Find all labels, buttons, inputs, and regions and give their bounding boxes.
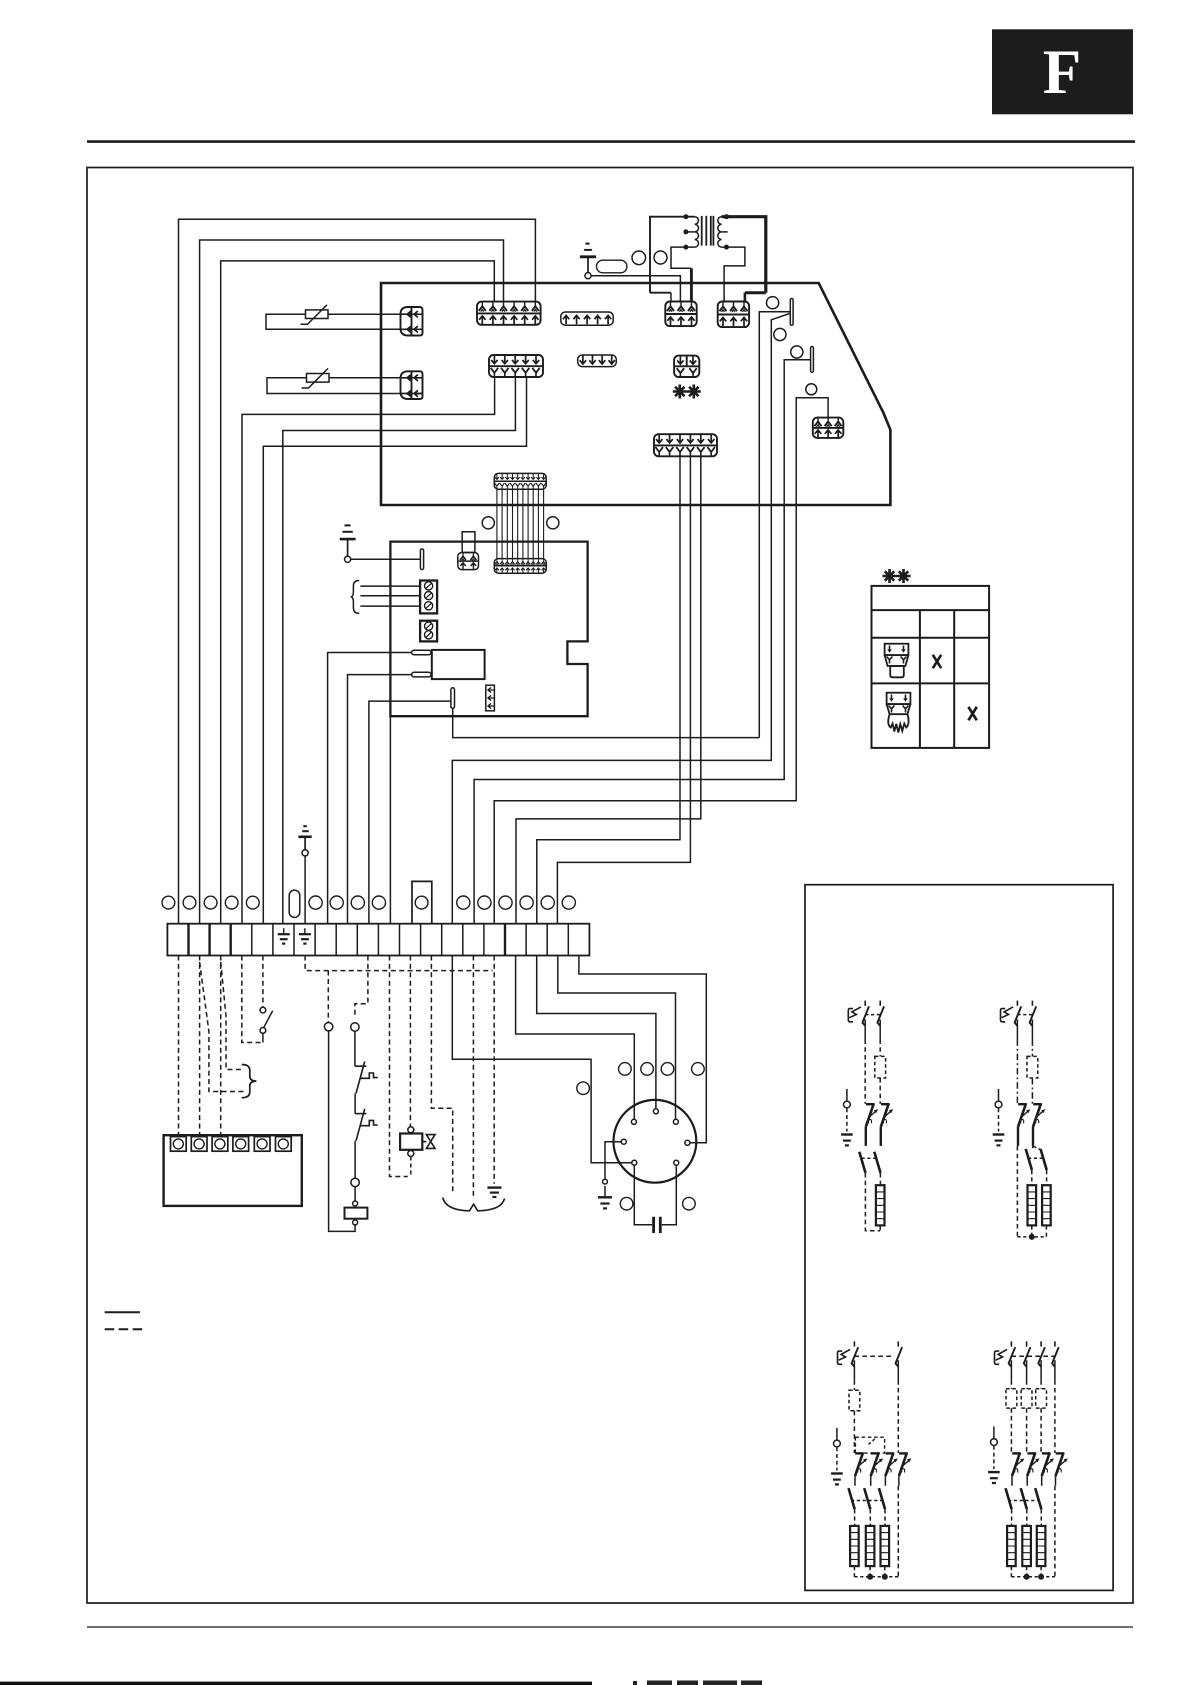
earth pigtail above terminal 7 [298, 826, 311, 924]
transformer terminal dots [683, 214, 729, 249]
page bottom crop bar [0, 1682, 592, 1685]
dashed branch to cable brace upper [200, 962, 244, 1092]
wire relay top pin to terminal 8 [328, 653, 412, 924]
connector X2 (5-way, down) [489, 355, 543, 377]
relay K1 bottom blade pin [412, 672, 431, 677]
D4 breaker pole 3 [1042, 1452, 1054, 1476]
D2 breaker outputs [1018, 1127, 1033, 1146]
D3 fuse ladder 3 [881, 1526, 890, 1566]
valve symbol [422, 1135, 435, 1149]
connector X13 (3-way left arrows) on display pcb [486, 685, 495, 711]
D1 accessory circle with earth [841, 1089, 853, 1146]
dashed wire terminal 15 to cable group [472, 956, 474, 1197]
dashed drop from bus to pump circuit [327, 971, 329, 1022]
wire ground G2 to pcb slot [351, 558, 421, 560]
D4 junction dot pole 3 [1038, 1574, 1044, 1580]
wire between cutouts [354, 1094, 356, 1114]
D4 accessory circle with earth [988, 1427, 1000, 1484]
connector X8 (6-way, down) [654, 434, 717, 456]
connector X1 (6-way) [477, 302, 541, 325]
top horizontal rule [87, 140, 1135, 143]
dashed wire terminal 5 to limit switch [262, 956, 264, 1007]
D2 pole N solid link [1032, 1146, 1034, 1148]
D2 pole L lower dashed [1016, 1146, 1018, 1237]
pump feed circle [324, 1022, 332, 1030]
pcb hole B [774, 328, 786, 340]
connector X6 (sensor plug 1) [401, 307, 423, 336]
D4 breaker outputs [1012, 1476, 1056, 1486]
D4 upper wires [1011, 1360, 1055, 1380]
motor pin lower-left [632, 1160, 637, 1165]
connector X12 (2-way) on display pcb [458, 553, 479, 570]
D3 fuse stub dashes [854, 1509, 885, 1577]
table X mark row 4 [968, 707, 976, 720]
D4 breaker pole 2 [1027, 1452, 1039, 1476]
D1 breaker outputs [866, 1127, 881, 1146]
D2 bottom coupling dashes [1017, 1236, 1046, 1238]
D2 branch dashes to second fuse column [1033, 1146, 1040, 1149]
legend solid line sample [105, 1311, 140, 1313]
D2 main switch lever [1001, 1007, 1014, 1022]
thermistor probe 1 leads [266, 314, 422, 329]
D3 main switch lever [838, 1349, 851, 1364]
wire X8 pin 4 to terminal 19 [557, 456, 690, 923]
connector header J2 (4-way, down) [578, 355, 617, 367]
wire primary bottom tap to connector X3 pin 3 [671, 247, 695, 268]
transformer T1 primary taps [686, 231, 695, 233]
D2 fuse ladder B [1042, 1185, 1051, 1225]
wire terminal 20 to motor right pin [579, 956, 706, 1143]
D3 blade coupling dashes [854, 1355, 894, 1357]
motor pin right [685, 1140, 690, 1145]
D4 fuse ladder 1 [1007, 1526, 1016, 1566]
relay K1 top blade pin [412, 650, 431, 655]
motor run capacitor C1 [654, 1217, 661, 1233]
D2 fuse ladder A [1028, 1185, 1037, 1225]
transformer T1 core [702, 216, 714, 246]
D1 isolator blade L [859, 1152, 865, 1173]
pcb slot pad lower (vertical) [451, 688, 455, 709]
motor pin top [653, 1109, 658, 1114]
limit switch S1 [260, 1007, 273, 1042]
D2 breaker pole N [1033, 1103, 1045, 1127]
wire slot pad to terminal 10 [369, 701, 451, 924]
D1 main switch lever [848, 1007, 861, 1022]
ribbon cable wires [497, 489, 544, 558]
dashed wire terminal 1 to room stat block [178, 956, 180, 1137]
dashed wire terminal 3 to room stat block [220, 956, 222, 1137]
D3 breaker pole 3 [885, 1452, 897, 1476]
terminal tower at cell 12 [412, 881, 432, 923]
double asterisk mark above table [883, 569, 897, 583]
connector X11 ribbon header (10-way) on display pcb [494, 559, 546, 574]
pump circuit wire down and across [329, 1031, 356, 1232]
motor left pin earth wire [605, 1142, 621, 1179]
wire display pcb corner to terminal 11 [389, 716, 391, 924]
gas valve solenoid Y1 bottom circle [408, 1151, 414, 1157]
D4 optional fuse box pole 2 [1021, 1389, 1032, 1408]
wire from terminal 4 to connector X2 pin 1 [242, 377, 495, 924]
thermistor probe 2 leads [267, 378, 422, 394]
D4 blade coupling dashes [1011, 1355, 1055, 1357]
D1 pole N dashed stub to fuse [879, 1173, 881, 1231]
section label F box [992, 29, 1133, 114]
table X mark row 3 [933, 655, 941, 668]
D1 pole N upper wire [879, 1020, 881, 1040]
double asterisk mark near X5 [673, 385, 687, 399]
motor pin lower-right [674, 1160, 679, 1165]
D4 isolator blade 1 [1006, 1488, 1012, 1509]
D1 pole L lower dashed [865, 1173, 880, 1231]
connector X9 (3-way, right) [813, 418, 844, 438]
D3 pole 1 upper wire [853, 1360, 855, 1380]
wire terminal 17 to motor upper-left pin [516, 956, 635, 1120]
D3 fuse ladder 2 [866, 1526, 875, 1566]
D1 breaker pole L [866, 1103, 878, 1127]
D2 pole N blade [1030, 1001, 1037, 1026]
main terminal strip body [167, 924, 589, 956]
D2 accessory circle with earth [993, 1089, 1005, 1146]
D1 isolator blade N [874, 1152, 880, 1173]
cable brace (mains input group) [351, 581, 360, 614]
D1 breaker pole N [881, 1103, 893, 1127]
fuse plug body [345, 1208, 368, 1219]
wire secondary bottom tap to connector X4 pin 1 [722, 247, 745, 301]
D2 pole L blade [1015, 1001, 1022, 1026]
D3 isolator blade 1 [849, 1488, 855, 1509]
transformer T1 primary winding [695, 217, 699, 247]
table icon: plug connector with wire tails [887, 693, 911, 733]
screw terminal block TB1 (3-way) [420, 581, 437, 614]
dashed wire terminal 2 to room stat block [199, 956, 201, 1137]
D2 isolator coupling dashes [1028, 1157, 1043, 1159]
earth mark in strip cell 6 [278, 928, 290, 943]
dashed branch to cable brace lower [221, 962, 244, 1070]
transformer T1 mounting box [650, 217, 766, 293]
wire from terminal 1 up and over to connector X1 pin 6 [179, 219, 536, 923]
overheat chain lower circle [351, 1178, 359, 1186]
thermistor R2 (NTC sensor) [302, 368, 330, 388]
D4 pole 2 blade [1024, 1341, 1031, 1366]
transformer T1 secondary center tap stub [722, 231, 728, 233]
wire from terminal 3 up and over to connector X1 pin 2 [221, 261, 495, 924]
dashed bus below strip [305, 956, 493, 971]
connector X5 (2-way, down) [674, 356, 699, 377]
D3 pole 4 lower dashed [897, 1486, 899, 1577]
dashed wire terminal 11 to solenoid return [390, 956, 408, 1177]
thermal cutout contact 2 [355, 1109, 378, 1141]
gas valve solenoid Y1 body [400, 1134, 422, 1150]
D4 breaker pole 4 [1056, 1452, 1068, 1476]
D3 breaker pole 4 [899, 1452, 911, 1476]
D3 coupling dashed box [855, 1437, 884, 1453]
screw terminal block TB2 (2-way) [420, 621, 437, 642]
pcb slot pad (vertical) [420, 549, 423, 570]
D3 accessory circle with earth [831, 1428, 843, 1485]
D2 optional fuse box on N [1027, 1056, 1038, 1078]
D3 coupling box diagonal [869, 1438, 877, 1445]
D3 pole 4 blade [896, 1341, 903, 1366]
D4 pole 4 lower dashed [1054, 1486, 1056, 1577]
wire terminal 18 to motor top pin [537, 956, 656, 1109]
motor pin upper-right [673, 1119, 678, 1124]
D3 breaker pole 1 [855, 1452, 867, 1476]
wire slot pad down to right riser [453, 708, 760, 737]
D1 fuse ladder N [876, 1185, 885, 1225]
D2 blade coupling dashes [1017, 1014, 1032, 1016]
D4 fuse stub dashes [1011, 1509, 1041, 1577]
legend dashed line sample [105, 1328, 143, 1330]
D2 breaker pole L [1018, 1103, 1030, 1127]
dashed wire terminal 13 jog to cable group [431, 956, 452, 1195]
label oval placeholder [597, 260, 627, 273]
wire slot A to terminal 14 riser [759, 312, 790, 738]
overheat chain top circle [351, 1023, 359, 1031]
wire from terminal 5 to connector X2 pin 4 [263, 377, 526, 924]
wire box bottom-left to connector X3 pin 1 [670, 293, 672, 302]
connector X3 (3-way, transformer primary) [665, 302, 696, 327]
wire ground to connector X3 pin 2 [591, 276, 680, 302]
external supply options panel box [805, 885, 1113, 1591]
fuse plug small top circle [353, 1201, 358, 1206]
D4 main switch lever [995, 1349, 1008, 1364]
D4 fuse ladder 3 [1037, 1526, 1046, 1566]
wire terminal 19 to motor upper-right pin [558, 956, 676, 1120]
wire terminal 14 to motor lower-left pin [452, 956, 632, 1163]
D4 optional fuse box pole 3 [1036, 1389, 1047, 1408]
D2 isolator blade A [1026, 1149, 1032, 1170]
D4 pole 4 blade [1052, 1341, 1059, 1366]
D3 fuse ladder 1 [850, 1526, 859, 1566]
D2 fuse stub dashes [1032, 1170, 1047, 1237]
motor pin left [621, 1139, 626, 1144]
wire from terminal 6 to connector X2 pin 3 [283, 377, 516, 924]
chassis ground symbol G1 [580, 244, 596, 279]
D2 neutral junction dot [1029, 1234, 1035, 1240]
cable group underbrace [443, 1198, 505, 1211]
main control PCB outline [381, 283, 890, 505]
connector X7 (sensor plug 2) [401, 371, 423, 399]
relay K1 body [432, 650, 485, 679]
D3 junction dot pole 3 [882, 1574, 888, 1580]
pcb hole pair beside ribbon [482, 517, 494, 529]
D2 pole L upper wire [1016, 1020, 1018, 1040]
mains input wires to screw terminal block [360, 586, 420, 606]
dashed wire terminal 4 to limit switch [242, 956, 263, 1043]
D3 isolator blade 3 [879, 1488, 885, 1509]
terminal slot capsule at cell 6 [289, 890, 300, 917]
fan motor M1 body [614, 1100, 697, 1183]
gas valve solenoid Y1 top circle [408, 1127, 414, 1133]
D3 isolator coupling dashes [851, 1500, 881, 1502]
terminal strip cell dividers [189, 924, 569, 956]
dashed stub solenoid bottom [410, 1157, 412, 1177]
D1 pole N blade [877, 1001, 884, 1026]
dashed wire terminal 16 to earth tail [493, 956, 495, 1184]
overheat chain stem [354, 1031, 356, 1066]
accessory option table [872, 586, 990, 748]
D4 isolator blade 3 [1035, 1488, 1041, 1509]
earth symbol on dashed tail [487, 1188, 501, 1197]
motor run capacitor C1 wires [634, 1165, 676, 1225]
wire box bottom-right to connector X4 pin 3 [744, 293, 747, 302]
D4 fuse ladder 2 [1022, 1526, 1031, 1566]
D4 pole 1 blade [1009, 1341, 1016, 1366]
fuse plug small bottom circle [353, 1220, 358, 1225]
wire from terminal 2 up and over to connector X1 pin 3 [200, 240, 504, 924]
table icon: plug connector (short) [885, 644, 909, 678]
pcb hole with slot pair A [767, 297, 779, 309]
D3 breaker outputs [855, 1476, 899, 1486]
thermistor R1 (NTC sensor) [301, 305, 329, 325]
D2 pole N upper wire [1031, 1020, 1033, 1040]
svg-text:F: F [1043, 37, 1081, 107]
D3 pole 1 blade [852, 1341, 859, 1366]
wire X8 pin 5 to terminal 17 [516, 456, 701, 923]
component box on display pcb top edge [462, 532, 475, 553]
display PCB outline [390, 542, 587, 717]
wire connector X9 pin 2 loop to terminal 16 [494, 398, 828, 924]
dashed wire terminal 10 to overheat chain [355, 956, 368, 1017]
cable brace right bottom group [242, 1065, 257, 1098]
pcb hole with slot pair C [791, 346, 803, 358]
connector X10 ribbon header (10-way) on main pcb [494, 473, 546, 489]
wire cutout 2 to lower circle [354, 1141, 356, 1178]
terminal eyelet circles [162, 896, 575, 909]
diagram border frame [87, 168, 1133, 1604]
D1 blade coupling dashes [865, 1014, 880, 1016]
pcb hole D [806, 384, 817, 395]
D4 isolator blade 2 [1021, 1488, 1027, 1509]
motor earth symbol [598, 1186, 612, 1208]
wire relay bottom pin to terminal 9 [348, 675, 412, 924]
D3 breaker pole 2 [871, 1452, 883, 1476]
connector X4 (3-way, transformer secondary) [718, 302, 749, 328]
wire slot C to terminal 15 [474, 360, 810, 924]
D1 optional fuse box on N [875, 1056, 886, 1078]
pcb hole left pair [632, 251, 646, 265]
D3 optional fuse box pole 1 [849, 1390, 860, 1411]
D1 isolator coupling dashes [862, 1157, 878, 1159]
motor pin upper-left [631, 1119, 636, 1124]
page bottom crop marks [633, 1681, 762, 1685]
D3 isolator blade 2 [864, 1488, 870, 1509]
thermal cutout contact 1 [355, 1062, 378, 1094]
transformer T1 secondary winding [718, 217, 722, 247]
D1 pole L upper wire [864, 1020, 866, 1040]
D4 isolator coupling dashes [1008, 1500, 1038, 1502]
D4 breaker pole 1 [1012, 1452, 1024, 1476]
D4 bottom coupling dashes [1011, 1576, 1055, 1578]
D4 pole 3 blade [1038, 1341, 1045, 1366]
motor earth circle [603, 1179, 608, 1184]
D3 pole 4 upper wire [897, 1360, 899, 1380]
D3 bottom coupling dashes [854, 1576, 898, 1578]
dashed wire terminal 12 to solenoid [409, 956, 411, 1127]
D1 pole L blade [862, 1001, 869, 1026]
wire slot A lower to terminal riser B [452, 313, 790, 923]
D4 optional fuse box pole 1 [1006, 1389, 1017, 1408]
earth mark in strip cell 7 [299, 928, 311, 943]
D2 isolator blade B [1041, 1149, 1047, 1170]
room thermostat terminal block [164, 1135, 302, 1206]
wire X8 pin 3 to terminal 18 [537, 456, 680, 923]
motor mounting holes [577, 1063, 704, 1210]
chassis ground symbol G2 [340, 525, 356, 562]
D4 junction dot pole 2 [1024, 1574, 1030, 1580]
D3 junction dot pole 2 [867, 1574, 873, 1580]
footer thin rule [87, 1626, 1133, 1628]
connector header J1 (5-way) [561, 312, 613, 325]
